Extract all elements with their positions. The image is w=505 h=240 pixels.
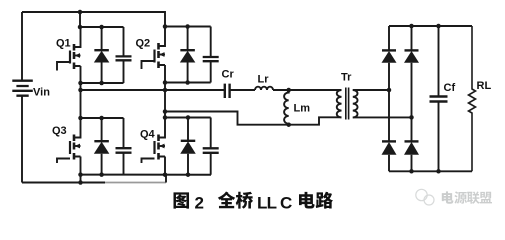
inductor Lr [255, 87, 273, 90]
node Q4 bottom bar diode [186, 172, 191, 177]
capacitor C-Q2 [203, 27, 219, 83]
node B leg2 midpoint [163, 88, 168, 93]
capacitor C-Q1 [116, 27, 132, 83]
wire Q3 top node bar [81, 117, 124, 119]
wire Q3 bar drop to rail [80, 175, 82, 183]
transformer Tr primary winding [337, 90, 342, 117]
node Q3 bottom bar diode [99, 172, 104, 177]
node Q2 source [163, 80, 168, 85]
diode D-Q2 [180, 27, 196, 83]
node Q2 bottom bar diode [185, 80, 190, 85]
wire bottom rail left [22, 182, 105, 184]
wire top rail [22, 12, 165, 27]
wire bottom rail step up [165, 175, 167, 183]
diode D-Q3 [94, 118, 110, 175]
wire bridge output to Cr [81, 89, 225, 91]
wire Cr to Lr [230, 89, 255, 91]
wire Q1 top node bar [80, 26, 124, 28]
node Cf bottom [436, 169, 441, 174]
transformer Tr secondary winding [353, 90, 358, 117]
svg-text:Q3: Q3 [52, 125, 67, 137]
transistor Q2 [142, 27, 166, 83]
diode D4 [404, 117, 419, 171]
transformer Tr core [346, 88, 349, 120]
node Q4 top bar left [163, 115, 168, 120]
node bridge top right leg [409, 24, 414, 29]
inductor Lm [284, 90, 289, 125]
wire secondary top to bridge [353, 89, 389, 91]
watermark text 电源联盟 [442, 191, 492, 204]
wire bridge bottom rail [389, 170, 472, 172]
svg-text:Q1: Q1 [56, 38, 71, 50]
transistor Q1 [57, 27, 81, 83]
node Cf top [436, 24, 441, 29]
battery Vin [12, 12, 33, 183]
svg-text:2: 2 [195, 193, 204, 212]
node Q4 source [163, 172, 168, 177]
svg-text:Cf: Cf [444, 82, 456, 94]
wire Q1 bottom node bar [81, 82, 124, 84]
diode D-Q4 [180, 118, 196, 175]
node bridge AC right [409, 115, 414, 120]
transistor Q4 [142, 118, 166, 175]
wire Q3-Q4 bottom node bar [81, 174, 212, 176]
capacitor Cr [225, 84, 230, 98]
svg-text:RL: RL [477, 80, 492, 92]
diode D-Q1 [94, 27, 110, 83]
node Q1 source [78, 81, 83, 86]
resistor RL [469, 26, 476, 171]
wire Q2 bottom node bar [165, 82, 211, 84]
node rail under Q3 [78, 180, 83, 185]
wire Q4 top node bar [165, 117, 211, 119]
svg-text:Lm: Lm [294, 103, 311, 115]
node bridge bottom right leg [409, 169, 414, 174]
watermark logo circles [416, 189, 434, 205]
node Q3 source [78, 172, 83, 177]
node Q3 top bar diode [99, 116, 104, 121]
wire leg1 midpoint [80, 83, 82, 118]
capacitor Cf [430, 26, 448, 171]
wire Q1 drain stub [79, 12, 81, 27]
wire secondary bottom to bridge [353, 116, 412, 118]
svg-text:Lr: Lr [258, 74, 270, 86]
diode D2 [404, 26, 419, 117]
node Q2 top bar left [163, 24, 168, 29]
node Q1 top bar left [78, 25, 83, 30]
svg-text:L: L [267, 193, 277, 212]
node bridge AC left [387, 88, 392, 93]
node Q2 top bar diode [185, 24, 190, 29]
wire Q2 top node bar [165, 26, 211, 28]
node Q1 bottom bar diode [99, 81, 104, 86]
node Lm top [286, 88, 291, 93]
wire bridge top rail [389, 25, 472, 27]
node top rail / Q1 drain [78, 10, 83, 15]
node Q4 top bar diode [186, 115, 191, 120]
diode D1 [382, 26, 397, 90]
capacitor C-Q4 [203, 118, 219, 175]
wire leg2 midpoint [164, 83, 166, 118]
node return takeoff [163, 109, 168, 114]
node Q3 top bar left [78, 116, 83, 121]
node Lm bottom [286, 122, 291, 127]
node Q1 top bar diode [99, 25, 104, 30]
wire bottom rail faded segment [105, 182, 166, 184]
node A leg1 midpoint [78, 88, 83, 93]
transistor Q3 [57, 118, 81, 175]
wire Lr to transformer primary [273, 89, 342, 91]
wire primary return [165, 112, 342, 125]
svg-text:Q2: Q2 [136, 38, 151, 50]
svg-text:Cr: Cr [222, 69, 235, 81]
svg-text:C: C [280, 193, 292, 212]
svg-text:Q4: Q4 [140, 129, 156, 141]
svg-text:Vin: Vin [33, 87, 50, 99]
diode D3 [382, 90, 397, 171]
capacitor C-Q3 [116, 118, 132, 175]
svg-text:Tr: Tr [341, 72, 352, 84]
caption: figure title 图 2 全桥 LLC 电路 [173, 192, 333, 213]
